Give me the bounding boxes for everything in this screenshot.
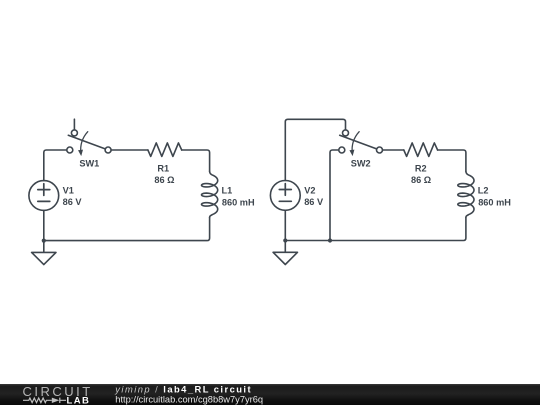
wire: V1 top to SW1 left terminal bbox=[44, 150, 67, 181]
svg-text:R1: R1 bbox=[157, 163, 169, 173]
label SW2 bbox=[351, 158, 371, 168]
voltage source V1 bbox=[29, 181, 59, 211]
resistor R2 bbox=[404, 143, 438, 157]
svg-text:LAB: LAB bbox=[67, 395, 91, 405]
svg-text:SW1: SW1 bbox=[79, 158, 99, 168]
SW2 right terminal (pivot) bbox=[377, 147, 383, 153]
label SW1 bbox=[79, 158, 99, 168]
wire: L2 bottom rail to V2 bbox=[285, 218, 466, 241]
label L1 860 mH bbox=[222, 186, 255, 208]
SW2 blade bbox=[340, 135, 377, 149]
SW1 blade bbox=[68, 135, 105, 149]
svg-text:http://circuitlab.com/cg8b8w7y: http://circuitlab.com/cg8b8w7y7yr6q bbox=[115, 394, 263, 404]
wire: SW1 top stub bbox=[73, 119, 75, 130]
SW1 top terminal bbox=[71, 130, 77, 136]
junction dot: SW2 branch on bottom rail bbox=[328, 238, 332, 242]
svg-text:L2: L2 bbox=[478, 186, 489, 196]
svg-text:86 Ω: 86 Ω bbox=[154, 175, 174, 185]
svg-text:L1: L1 bbox=[222, 186, 233, 196]
wire: SW1 to R1 bbox=[111, 149, 148, 151]
svg-text:yiminp / lab4_RL circuit: yiminp / lab4_RL circuit bbox=[114, 384, 252, 395]
wire: R1 to L1 top bbox=[182, 150, 210, 171]
wire: SW2 left terminal down to bottom rail bbox=[330, 150, 339, 241]
resistor R1 bbox=[148, 143, 182, 157]
wire: SW2 to R2 bbox=[383, 149, 404, 151]
label R2 86 ohm bbox=[411, 163, 431, 185]
inductor L2 bbox=[458, 171, 474, 217]
svg-text:86 V: 86 V bbox=[63, 197, 83, 207]
label V2 86 V bbox=[304, 185, 324, 207]
SW1 right terminal (pivot) bbox=[105, 147, 111, 153]
wire: V2 top over to SW2 top terminal bbox=[285, 119, 345, 180]
SW2 left terminal bbox=[339, 147, 345, 153]
svg-text:86 Ω: 86 Ω bbox=[411, 175, 431, 185]
label L2 860 mH bbox=[478, 186, 511, 208]
svg-text:V1: V1 bbox=[63, 185, 74, 195]
wire: V2 bottom to ground node bbox=[284, 210, 286, 240]
inductor L1 bbox=[202, 171, 218, 217]
ground symbol (left) bbox=[32, 241, 56, 265]
wire: V1 bottom to ground node bbox=[43, 210, 45, 240]
junction dot: V2 ground node bbox=[283, 238, 287, 242]
svg-text:R2: R2 bbox=[415, 163, 427, 173]
switch SW2 bbox=[339, 130, 383, 156]
switch SW1 bbox=[67, 119, 111, 156]
label R1 86 ohm bbox=[154, 163, 174, 185]
wire: L1 bottom rail to V1 bbox=[44, 218, 210, 241]
svg-text:V2: V2 bbox=[304, 185, 315, 195]
svg-text:860 mH: 860 mH bbox=[222, 198, 255, 208]
SW1 actuation arrow bbox=[81, 132, 88, 153]
SW2 actuation arrow bbox=[352, 132, 359, 153]
voltage source V2 bbox=[270, 181, 300, 211]
SW2 top terminal bbox=[343, 130, 349, 136]
junction dot: V1 ground node bbox=[42, 239, 46, 243]
label V1 86 V bbox=[63, 185, 83, 207]
logo doodle: wire resistor diode bbox=[23, 398, 66, 403]
wire: R2 to L2 top bbox=[438, 150, 466, 171]
svg-text:860 mH: 860 mH bbox=[478, 198, 511, 208]
ground symbol (right) bbox=[273, 241, 297, 265]
svg-text:86 V: 86 V bbox=[304, 197, 324, 207]
svg-text:SW2: SW2 bbox=[351, 158, 371, 168]
SW1 left terminal bbox=[67, 147, 73, 153]
